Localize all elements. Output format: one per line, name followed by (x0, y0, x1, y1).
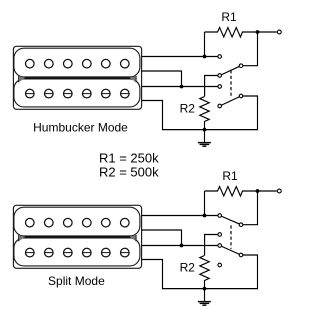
switch S1 contact circles (218, 55, 243, 108)
wire pickup lead 4 to ground rail (142, 101, 163, 131)
wire R2 top to switch throw 2 (205, 76, 218, 97)
wire pickup lead 3 to switch throw 3 (bottom) (142, 245, 218, 247)
switch S2 mechanical link (dashed) (230, 225, 232, 249)
output terminal (bottom) (277, 189, 281, 193)
pickup PU1 (humbucker) (13, 46, 141, 109)
wire pickup lead 2 to junction (142, 71, 182, 87)
junction ground rail (203, 128, 207, 132)
junction lead2/lead3 (180, 85, 184, 89)
wire ground rail (163, 129, 258, 131)
ground symbol (198, 130, 211, 147)
ground symbol (bottom) (198, 289, 211, 306)
junction lead2/lead3 (bottom) (180, 244, 184, 248)
wire pickup lead 2 to junction (bottom) (142, 230, 182, 246)
wire output lead (bottom) (258, 190, 277, 192)
wire pickup lead 1 (hot) to node A (142, 56, 218, 58)
switch S1 arm pole 1 (220, 66, 241, 76)
svg-text:R2: R2 (180, 261, 196, 275)
wire pickup lead 1 (hot) to node C (142, 215, 218, 217)
junction node B (R1 right / output) (256, 30, 260, 34)
output terminal (277, 30, 281, 34)
junction node A (lead1 / R1) (203, 55, 207, 59)
switch S2 arm pole 2 (220, 246, 241, 256)
svg-text:Humbucker Mode: Humbucker Mode (33, 121, 128, 135)
junction node C (lead1 / R1) (203, 214, 207, 218)
wire R2 top to switch throw 2 (bottom) (205, 235, 218, 256)
svg-text:Split Mode: Split Mode (48, 274, 105, 288)
svg-text:R2 = 500k: R2 = 500k (99, 165, 159, 180)
resistor R2 (200, 97, 209, 131)
wire ground rail (bottom) (163, 288, 258, 290)
wire pickup lead 4 to ground rail (bottom) (142, 260, 163, 290)
resistor R2 (bottom) (200, 256, 209, 290)
svg-text:R2: R2 (180, 102, 196, 116)
resistor R1 (bottom) (205, 187, 258, 197)
junction node D (R1 right / output) (256, 189, 260, 193)
wire R1 left leg (bottom) (204, 191, 206, 216)
switch S1 mechanical link (dashed) (230, 70, 232, 98)
wire switch common 1 to R1 right (243, 32, 258, 66)
junction ground rail (bottom) (203, 287, 207, 291)
wire output lead (258, 31, 277, 33)
switch S2 arm pole 1 (220, 216, 241, 225)
wire switch common 1 to R1 right (bottom) (243, 191, 258, 225)
svg-text:R1: R1 (221, 10, 237, 24)
wire R1 left leg (204, 32, 206, 57)
svg-text:R1: R1 (222, 169, 238, 183)
pickup PU2 (humbucker) (13, 205, 141, 268)
svg-text:R1 = 250k: R1 = 250k (99, 151, 159, 166)
switch S1 arm pole 2 (220, 96, 241, 106)
switch S2 contact circles (218, 214, 243, 267)
wire switch common 2 to ground rail (243, 96, 258, 130)
wire switch common 2 to ground rail (bottom) (243, 255, 258, 289)
resistor R1 (205, 28, 258, 38)
wire pickup lead 3 to switch throw 3 (142, 86, 218, 88)
